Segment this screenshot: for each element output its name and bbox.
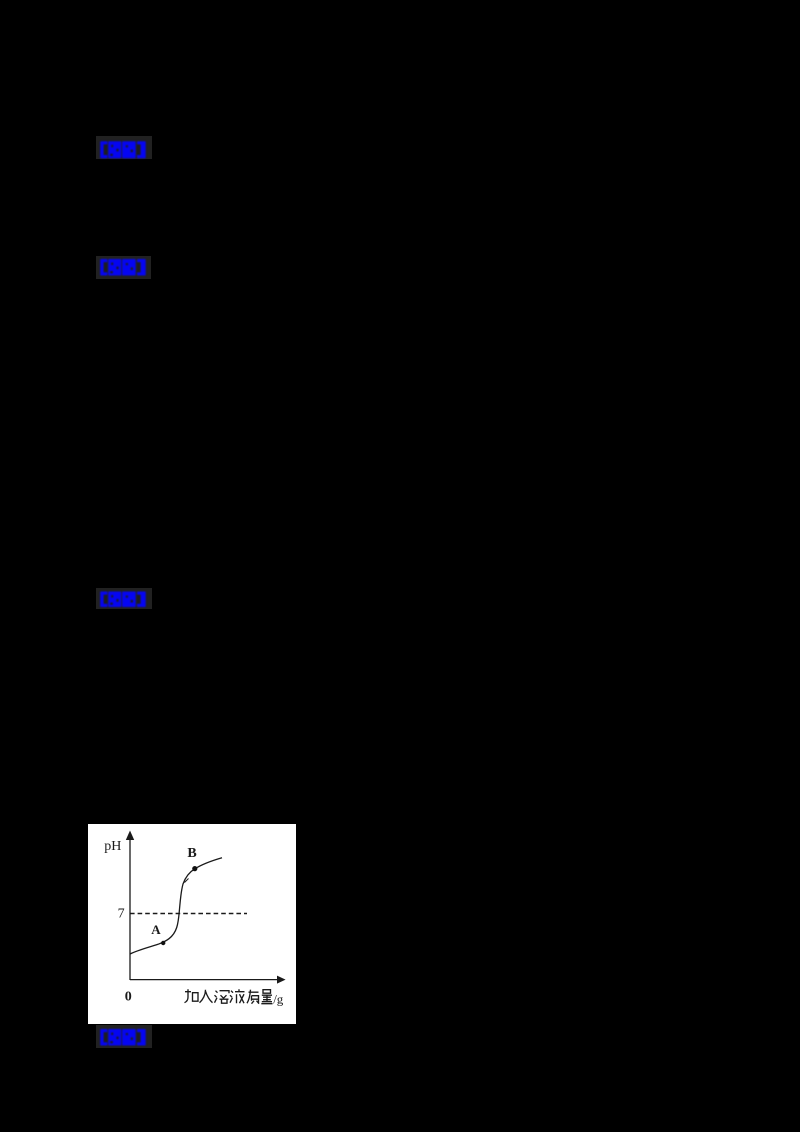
svg-text:0: 0 [125,989,132,1004]
svg-text:B: B [187,846,196,861]
svg-text:7: 7 [118,906,125,921]
svg-text:A: A [151,922,161,937]
svg-text:/g: /g [273,991,284,1006]
svg-text:pH: pH [104,839,121,854]
